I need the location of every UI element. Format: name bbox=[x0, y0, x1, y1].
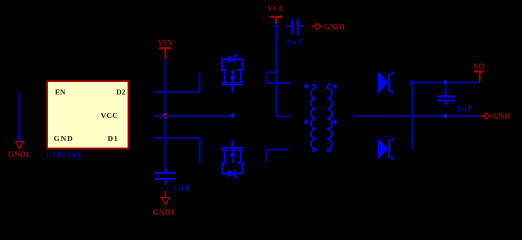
junction EN/GND square bbox=[18, 138, 22, 142]
junction GND diamond bbox=[443, 113, 448, 118]
svg-text:1uF: 1uF bbox=[173, 183, 192, 193]
wire VCC to gates bbox=[154, 115, 231, 117]
value label 1uF C1 bbox=[286, 37, 306, 47]
power port GND1 left bbox=[8, 142, 30, 160]
value label LTP850X bbox=[46, 152, 82, 160]
svg-text:GND: GND bbox=[492, 112, 510, 121]
power port VCC bbox=[267, 4, 285, 24]
svg-text:VO: VO bbox=[473, 62, 485, 71]
capacitor C1 VCC bypass bbox=[287, 19, 303, 35]
op-amp U1 LTP850X IC box bbox=[47, 81, 129, 149]
wire EN net vertical bbox=[18, 93, 20, 139]
wire VIN rail bbox=[164, 59, 166, 169]
svg-text:D2: D2 bbox=[116, 88, 125, 97]
transistor Q2 bottom MOSFET bbox=[221, 140, 243, 179]
svg-text:EN: EN bbox=[55, 88, 66, 97]
wire output rail top bbox=[414, 81, 480, 83]
power port VIN bbox=[158, 38, 173, 59]
wire Q2 drain to primary bottom bbox=[266, 149, 289, 162]
junction VO diamond bbox=[443, 80, 448, 85]
capacitor C2 output bbox=[437, 92, 455, 105]
diode D4 bottom rectifier bbox=[378, 138, 393, 160]
power port GND1 bottom bbox=[153, 191, 175, 217]
capacitor C3 input bypass bbox=[154, 169, 175, 185]
wire VCC to center tap bbox=[276, 26, 290, 116]
svg-text:GND1: GND1 bbox=[153, 208, 175, 217]
transformer T1 bbox=[311, 84, 332, 151]
node dot T1 secondary mid bbox=[332, 119, 337, 124]
node dot T1 secondary top bbox=[332, 84, 337, 89]
svg-text:VCC: VCC bbox=[101, 111, 119, 120]
power port GND1 top bbox=[312, 22, 346, 31]
wire Q1 drain to primary top bbox=[266, 72, 290, 83]
power port GND right bbox=[481, 112, 511, 121]
transistor Q1 top MOSFET bbox=[221, 54, 243, 92]
svg-text:VCC: VCC bbox=[267, 4, 285, 13]
node dot T1 primary mid bbox=[304, 119, 309, 124]
value label 1uF C3 bbox=[173, 183, 192, 193]
node dot T1 primary top bbox=[304, 84, 309, 89]
svg-text:1uF: 1uF bbox=[457, 105, 475, 114]
wire D1 drive bbox=[154, 138, 200, 162]
svg-text:D1: D1 bbox=[108, 134, 119, 143]
wire VO to C2 bbox=[445, 85, 447, 92]
value label 1uF C2 bbox=[457, 105, 475, 114]
junction output square bbox=[410, 80, 414, 84]
power port VO bbox=[473, 62, 485, 81]
svg-text:LTP850X: LTP850X bbox=[46, 152, 82, 160]
wire diode cathodes link bbox=[411, 84, 413, 149]
wire D2 drive bbox=[154, 72, 200, 92]
svg-text:GND: GND bbox=[54, 134, 74, 143]
junction VIN/VCC red bbox=[163, 114, 167, 118]
diode D3 top rectifier bbox=[378, 71, 393, 94]
svg-text:VIN: VIN bbox=[158, 38, 173, 47]
svg-text:GND1: GND1 bbox=[8, 150, 30, 159]
junction gate node diamond bbox=[230, 113, 235, 118]
svg-text:1uF: 1uF bbox=[286, 37, 306, 47]
junction VCC diamond bbox=[274, 24, 279, 29]
wire secondary center tap to GND bbox=[353, 115, 481, 117]
svg-text:GND1: GND1 bbox=[324, 22, 346, 31]
